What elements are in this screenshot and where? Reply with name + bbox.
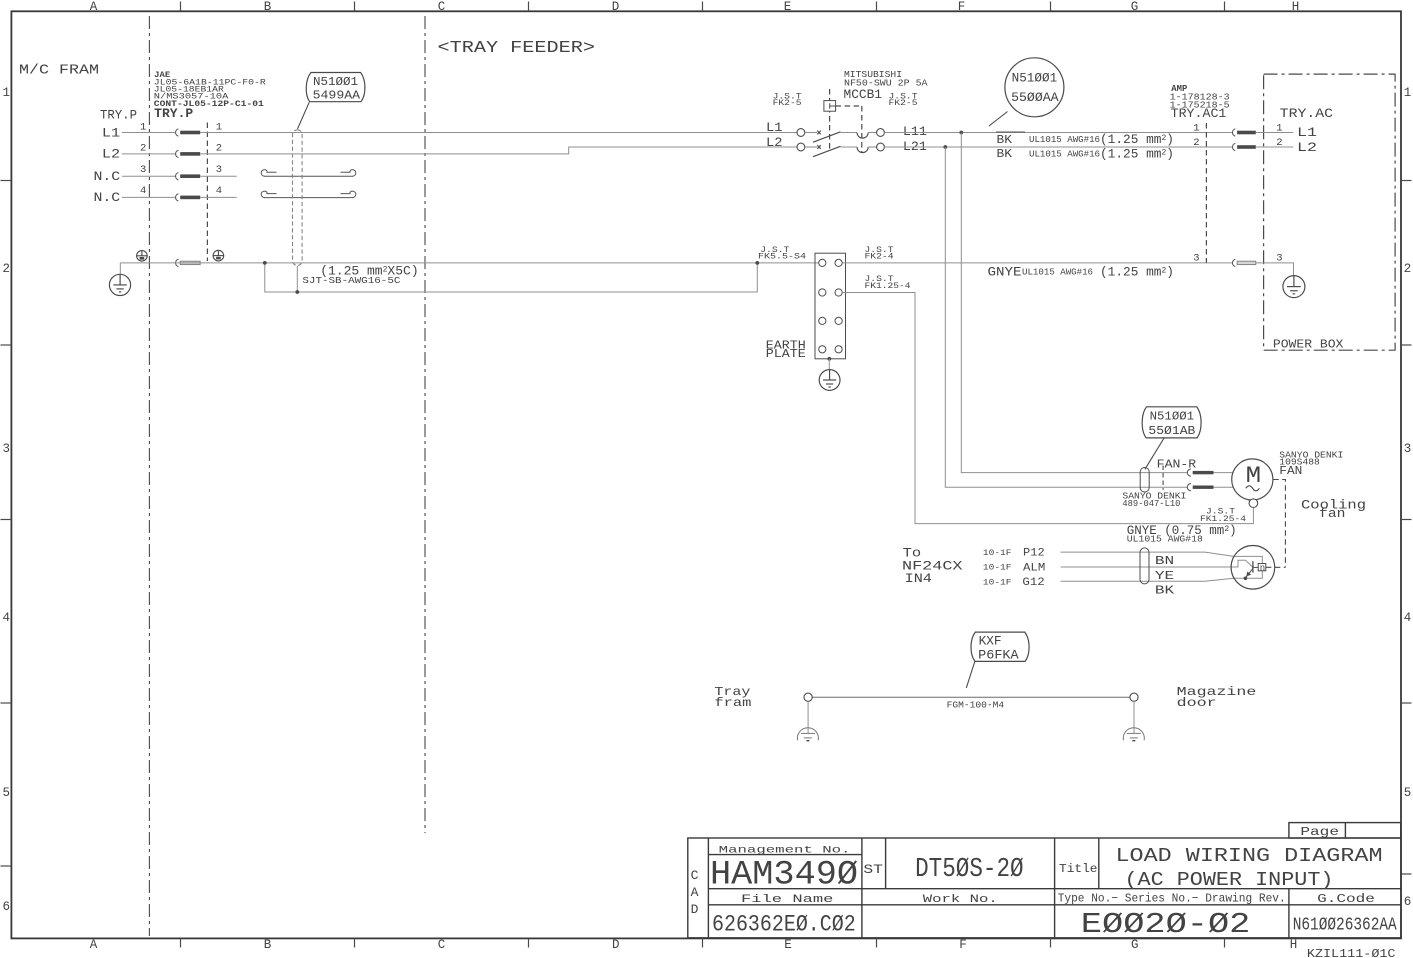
svg-text:MCCB1: MCCB1 [844, 87, 883, 102]
TRY.AC1 pin numbers [1193, 122, 1199, 264]
svg-text:4: 4 [1404, 611, 1412, 625]
N.C loop wire row 3 [261, 170, 356, 177]
contact FAN-R pin 1 [1187, 469, 1213, 476]
junction dot sensor emitter [1244, 577, 1248, 581]
svg-text:10-1F: 10-1F [983, 564, 1012, 573]
svg-text:P12: P12 [1023, 548, 1045, 560]
svg-text:1: 1 [2, 86, 10, 100]
svg-text:N51ØØ1: N51ØØ1 [1150, 410, 1195, 424]
svg-text:L2: L2 [1297, 141, 1317, 155]
door switch wire [812, 696, 1130, 698]
contact TRY.P pin 1 [176, 129, 201, 136]
balloon N51001 5501AB [1142, 407, 1201, 438]
svg-text:F: F [958, 0, 966, 14]
svg-text:D: D [691, 902, 699, 917]
svg-text:2: 2 [216, 142, 222, 154]
svg-text:M/C FRAM: M/C FRAM [19, 63, 99, 79]
svg-text:5: 5 [1404, 786, 1412, 800]
JAE connector part numbers text block [154, 70, 266, 109]
junction dot ground left [263, 261, 267, 265]
power box dash-dot outline [1264, 74, 1396, 350]
svg-text:UL1015 AWG#16: UL1015 AWG#16 [1029, 134, 1100, 145]
wire G12 to sensor [1061, 571, 1263, 581]
wire GNYE from earth plate [842, 262, 1232, 264]
svg-text:PLATE: PLATE [766, 348, 806, 361]
svg-text:FK1.25-4: FK1.25-4 [1200, 515, 1246, 524]
svg-text:SJT-SB-AWG16-5C: SJT-SB-AWG16-5C [302, 276, 400, 286]
svg-text:BK: BK [997, 133, 1013, 147]
svg-text:ALM: ALM [1023, 562, 1045, 574]
svg-text:A: A [691, 885, 699, 900]
svg-text:10-1F: 10-1F [983, 549, 1012, 558]
wire N.C 3 stub [200, 175, 237, 177]
earth plate terminal block [815, 253, 846, 359]
wire L2 pin lead [122, 153, 175, 155]
svg-text:3: 3 [140, 164, 146, 176]
TRY.AC pin numbers inside box [1276, 122, 1282, 264]
wire fan pin2 to motor [1214, 486, 1234, 488]
tray feeder boundary dash-dot line [424, 16, 426, 833]
svg-text:2: 2 [1404, 262, 1412, 276]
contact TRY.P pin 4 [176, 194, 201, 201]
svg-text:GNYE: GNYE [988, 265, 1022, 279]
svg-text:1: 1 [1193, 122, 1199, 134]
protective earth terminal symbol left [137, 251, 148, 262]
svg-text:BK: BK [1155, 584, 1175, 598]
wire FK1.25-4 from earth plate to fan motor ground [842, 293, 1253, 524]
contact TRY.P pin 3 [176, 173, 201, 180]
svg-text:3: 3 [1193, 253, 1199, 265]
svg-text:N.C: N.C [94, 191, 121, 205]
contact TRY.P ground pin [176, 259, 201, 266]
frame row ticks right [1401, 181, 1412, 875]
svg-text:55Ø1AB: 55Ø1AB [1148, 424, 1195, 438]
contact TRY.AC1 pin 3 (ground) [1232, 259, 1255, 266]
svg-text:TRY.AC: TRY.AC [1280, 107, 1333, 121]
svg-text:Title: Title [1059, 862, 1098, 876]
svg-text:door: door [1177, 696, 1217, 710]
pin numbers left column [140, 121, 146, 197]
cable oval to lower wire link [296, 266, 298, 292]
svg-text:LOAD WIRING DIAGRAM: LOAD WIRING DIAGRAM [1116, 845, 1383, 867]
svg-text:A: A [90, 0, 98, 14]
svg-text:EØØ2Ø-Ø2: EØØ2Ø-Ø2 [1081, 908, 1251, 941]
cable sheath oval TRY.P (dashed) [293, 130, 303, 266]
svg-text:KZIL111-Ø1C: KZIL111-Ø1C [1307, 947, 1396, 958]
earth symbol magazine door [1123, 728, 1144, 741]
dashed connector separation line TRY.P [206, 123, 208, 262]
svg-text:B: B [264, 0, 272, 14]
balloon KXF P6FKA [971, 632, 1029, 662]
svg-text:Page: Page [1300, 826, 1339, 839]
title block [688, 838, 1401, 938]
svg-text:3: 3 [2, 442, 10, 456]
svg-text:4: 4 [216, 185, 222, 197]
page box [1289, 823, 1401, 838]
svg-text:FK5.5-S4: FK5.5-S4 [758, 252, 806, 261]
svg-text:3: 3 [1404, 442, 1412, 456]
svg-text:ST: ST [863, 862, 883, 877]
svg-text:N61ØØ26362AA: N61ØØ26362AA [1293, 916, 1397, 936]
earth symbol power box [1283, 276, 1305, 298]
sensor emitter arrow [1246, 568, 1253, 577]
wire vertical from L11 to fan [961, 133, 1187, 473]
sensor output dashes [1266, 566, 1286, 568]
frame column ticks top [181, 2, 1225, 12]
M/C FRAM boundary dash-dot line [148, 16, 150, 936]
svg-text:DT5ØS-2Ø: DT5ØS-2Ø [915, 855, 1024, 885]
breaker MCCB1 pole L1 [797, 129, 884, 143]
svg-text:N51ØØ1: N51ØØ1 [313, 75, 358, 89]
junction dot ground right [755, 261, 759, 265]
svg-text:M: M [1246, 463, 1262, 489]
door switch terminal circle left [804, 693, 812, 701]
svg-text:N51ØØ1: N51ØØ1 [1012, 72, 1058, 86]
wire TRY.AC pin1 stub [1256, 132, 1293, 134]
leader line balloon 5501AB [1145, 438, 1164, 469]
contact TRY.AC1 pin 2 [1232, 143, 1255, 150]
wire color labels BN YE BK [1155, 554, 1175, 598]
frame column ticks bottom [181, 938, 1225, 947]
svg-text:UL1015 AWG#16: UL1015 AWG#16 [1029, 149, 1100, 160]
svg-text:626362EØ.CØ2: 626362EØ.CØ2 [712, 911, 856, 937]
sensor circle [1231, 546, 1275, 590]
svg-text:fram: fram [714, 696, 751, 710]
svg-text:FK2-5: FK2-5 [773, 99, 802, 108]
svg-text:BN: BN [1155, 554, 1174, 568]
svg-text:3: 3 [216, 164, 222, 176]
protective earth terminal symbol right [213, 250, 224, 261]
frame row ticks left [1, 181, 12, 867]
svg-text:TRY.P: TRY.P [154, 107, 193, 121]
grid letters top [90, 0, 1300, 14]
wire N.C 4 stub [200, 196, 237, 198]
breaker thermal linkage dashed vertical [861, 106, 863, 153]
grid numbers right [1404, 86, 1412, 909]
svg-text:BK: BK [997, 147, 1013, 161]
svg-text:Management No.: Management No. [719, 845, 851, 857]
svg-text:IN4: IN4 [905, 571, 933, 586]
svg-text:Work No.: Work No. [923, 894, 998, 906]
breaker trip unit square [824, 101, 836, 112]
svg-text:L2: L2 [102, 148, 120, 162]
svg-text:1: 1 [140, 121, 146, 133]
svg-text:YE: YE [1155, 569, 1174, 583]
svg-text:<TRAY FEEDER>: <TRAY FEEDER> [438, 38, 596, 57]
wire L1 pin lead [122, 132, 175, 134]
svg-text:FAN: FAN [1279, 464, 1302, 478]
wire N.C 3 pin lead [122, 175, 175, 177]
svg-text:FGM-100-M4: FGM-100-M4 [947, 700, 1005, 711]
leader line balloon 5499AA [298, 102, 310, 129]
wire L2 from connector with step [200, 147, 797, 154]
sensor transistor bar [1252, 561, 1254, 572]
cable oval fan [1140, 468, 1149, 493]
cable oval sensor [1140, 548, 1149, 584]
svg-text:489-047-L10: 489-047-L10 [1122, 499, 1180, 509]
earth symbol earth plate [819, 370, 840, 391]
svg-text:TRY.AC1: TRY.AC1 [1171, 107, 1227, 121]
cooling fan dashed bracket [1273, 480, 1285, 568]
svg-text:L1: L1 [766, 121, 783, 135]
junction dot L21 [943, 145, 947, 149]
ground wire TRY.P left drop [119, 263, 121, 275]
wire P12 to sensor [1061, 552, 1263, 563]
svg-text:L1: L1 [102, 126, 120, 140]
svg-text:(AC POWER INPUT): (AC POWER INPUT) [1125, 869, 1334, 891]
svg-text:POWER BOX: POWER BOX [1273, 338, 1344, 352]
svg-text:4: 4 [2, 611, 10, 625]
earth symbol TRY.P [109, 274, 130, 295]
wire ALM to sensor [1061, 560, 1253, 567]
svg-text:CONT-JL05-12P-C1-01: CONT-JL05-12P-C1-01 [154, 99, 264, 109]
balloon N51001 5499AA [306, 73, 365, 103]
svg-text:TRY.P: TRY.P [100, 107, 137, 122]
leader line balloon KXF [966, 662, 975, 688]
wire L21 [884, 146, 1232, 148]
wire fan pin1 to motor [1214, 472, 1234, 474]
sensor collector link to n box [1253, 566, 1258, 568]
svg-text:1: 1 [216, 121, 222, 133]
label CAD vertical [691, 868, 699, 917]
sensor output n box [1258, 564, 1266, 574]
svg-text:2: 2 [2, 262, 10, 276]
svg-text:FK2-5: FK2-5 [889, 99, 918, 108]
wire N.C 4 pin lead [122, 196, 175, 198]
junction dot L11 [959, 131, 963, 135]
N.C loop wire row 4 [261, 191, 356, 198]
svg-text:FK2-4: FK2-4 [865, 252, 894, 261]
svg-text:D: D [612, 0, 620, 14]
motor M circle [1232, 459, 1273, 500]
wire vertical from L21 to fan [945, 147, 1187, 487]
balloon N51001 5500AA circle [1005, 58, 1064, 117]
svg-text:4: 4 [140, 185, 146, 197]
svg-text:H: H [1290, 938, 1298, 952]
svg-text:C: C [691, 868, 699, 883]
motor ground pin circle [1249, 499, 1258, 508]
svg-text:2: 2 [140, 142, 146, 154]
svg-text:E: E [784, 0, 792, 14]
svg-text:FK1.25-4: FK1.25-4 [865, 282, 911, 291]
svg-text:1: 1 [1404, 86, 1412, 100]
wire L11 dark overline [996, 131, 1025, 133]
svg-text:Type No.− Series No.− Drawing: Type No.− Series No.− Drawing Rev. [1058, 891, 1286, 905]
svg-text:G.Code: G.Code [1317, 892, 1375, 906]
svg-text:2: 2 [1193, 137, 1199, 149]
svg-text:5499AA: 5499AA [313, 89, 361, 103]
svg-text:6: 6 [1404, 895, 1412, 909]
svg-text:D: D [612, 938, 620, 952]
dashed separation line FAN-R [1162, 466, 1164, 490]
wire TRY.AC pin3 to earth [1256, 263, 1294, 276]
pin labels L1 L2 N.C N.C [94, 126, 121, 205]
contact TRY.P pin 2 [176, 150, 201, 157]
dashed connector separation line TRY.AC1 [1205, 123, 1207, 263]
grid letters bottom [90, 938, 1298, 952]
svg-text:5: 5 [2, 786, 10, 800]
svg-text:fan: fan [1319, 506, 1346, 521]
grid numbers left [2, 86, 10, 914]
ground lead magazine door [1133, 701, 1135, 733]
ground loop lower run [265, 263, 758, 292]
ground wire TRY.P upper run [120, 262, 819, 264]
svg-text:UL1015 AWG#16: UL1015 AWG#16 [1022, 267, 1093, 278]
breaker trip linkage dashed line [829, 89, 831, 150]
svg-text:A: A [90, 938, 98, 952]
earth symbol tray fram [797, 728, 818, 741]
svg-text:55ØØAA: 55ØØAA [1011, 91, 1059, 105]
junction dot earth plate bottom [827, 357, 831, 361]
door switch terminal circle right [1130, 693, 1138, 701]
svg-text:H: H [1292, 0, 1300, 14]
svg-text:P6FKA: P6FKA [978, 648, 1019, 662]
svg-text:N.C: N.C [94, 170, 121, 184]
svg-text:KXF: KXF [979, 634, 1002, 648]
svg-text:HAM349Ø: HAM349Ø [710, 856, 858, 894]
svg-text:L1: L1 [1297, 126, 1317, 140]
ground lead tray fram [807, 701, 809, 733]
junction dot cable link [295, 290, 299, 294]
svg-text:B: B [264, 938, 272, 952]
contact FAN-R pin 2 [1187, 484, 1213, 491]
labels P12 ALM G12 [1022, 548, 1045, 589]
contact TRY.AC1 pin 1 [1232, 129, 1255, 136]
wire L11 [884, 132, 1232, 134]
earth plate ground lead [828, 359, 830, 370]
wire TRY.AC pin2 stub [1256, 146, 1293, 148]
svg-text:n: n [1260, 564, 1265, 574]
svg-text:C: C [438, 0, 446, 14]
svg-text:F: F [959, 938, 967, 952]
svg-text:10-1F: 10-1F [983, 578, 1012, 587]
svg-text:C: C [438, 938, 446, 952]
wire L1 from connector [200, 132, 797, 134]
breaker MCCB1 pole L2 [797, 143, 884, 157]
svg-text:UL1015 AWG#18: UL1015 AWG#18 [1127, 533, 1203, 544]
svg-text:L2: L2 [766, 136, 783, 150]
pin numbers right column [216, 121, 222, 197]
svg-text:6: 6 [2, 900, 10, 914]
labels 10-1F [983, 549, 1012, 587]
svg-text:File Name: File Name [741, 894, 833, 906]
svg-text:G12: G12 [1022, 577, 1044, 589]
svg-text:E: E [784, 938, 792, 952]
leader line balloon 5500AA [989, 112, 1008, 127]
svg-text:G: G [1131, 0, 1139, 14]
breaker trip linkage dashed horizontal [836, 105, 862, 107]
